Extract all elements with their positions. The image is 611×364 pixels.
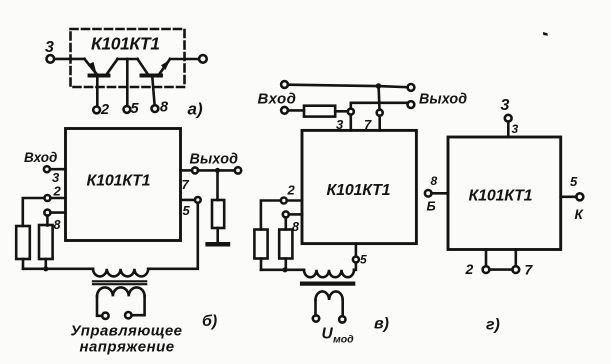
svg-text:мод: мод: [333, 334, 354, 346]
svg-text:5: 5: [570, 174, 578, 189]
svg-text:8: 8: [160, 100, 169, 116]
svg-text:7: 7: [182, 177, 190, 192]
svg-text:3: 3: [336, 117, 344, 132]
svg-text:а): а): [188, 100, 203, 119]
svg-text:б): б): [202, 313, 217, 330]
svg-text:2: 2: [465, 261, 474, 277]
svg-text:5: 5: [183, 203, 191, 218]
svg-text:Управляющее: Управляющее: [71, 323, 183, 340]
svg-text:5: 5: [131, 101, 140, 117]
svg-text:U: U: [322, 326, 334, 343]
svg-text:напряжение: напряжение: [80, 339, 175, 356]
svg-text:3: 3: [512, 122, 519, 136]
svg-text:7: 7: [525, 262, 534, 278]
svg-text:5: 5: [360, 253, 367, 267]
svg-text:8: 8: [292, 220, 299, 234]
svg-text:Вход: Вход: [258, 91, 297, 108]
svg-text:Вход: Вход: [24, 150, 57, 165]
svg-text:2: 2: [53, 184, 62, 199]
svg-text:г): г): [486, 317, 500, 334]
svg-text:8: 8: [54, 218, 61, 232]
svg-text:К101КТ1: К101КТ1: [469, 188, 533, 205]
svg-text:Выход: Выход: [419, 92, 467, 108]
svg-text:3: 3: [45, 39, 54, 56]
svg-text:2: 2: [287, 183, 296, 198]
svg-text:К101КТ1: К101КТ1: [327, 182, 391, 199]
svg-text:7: 7: [364, 117, 372, 132]
svg-text:Б: Б: [427, 199, 436, 214]
svg-text:К101КТ1: К101КТ1: [91, 34, 160, 54]
svg-text:3: 3: [501, 97, 510, 114]
svg-text:2: 2: [100, 102, 109, 118]
svg-text:в): в): [374, 316, 389, 333]
svg-text:8: 8: [431, 174, 438, 188]
svg-text:К101КТ1: К101КТ1: [87, 173, 151, 190]
svg-text:Выход: Выход: [190, 152, 239, 168]
